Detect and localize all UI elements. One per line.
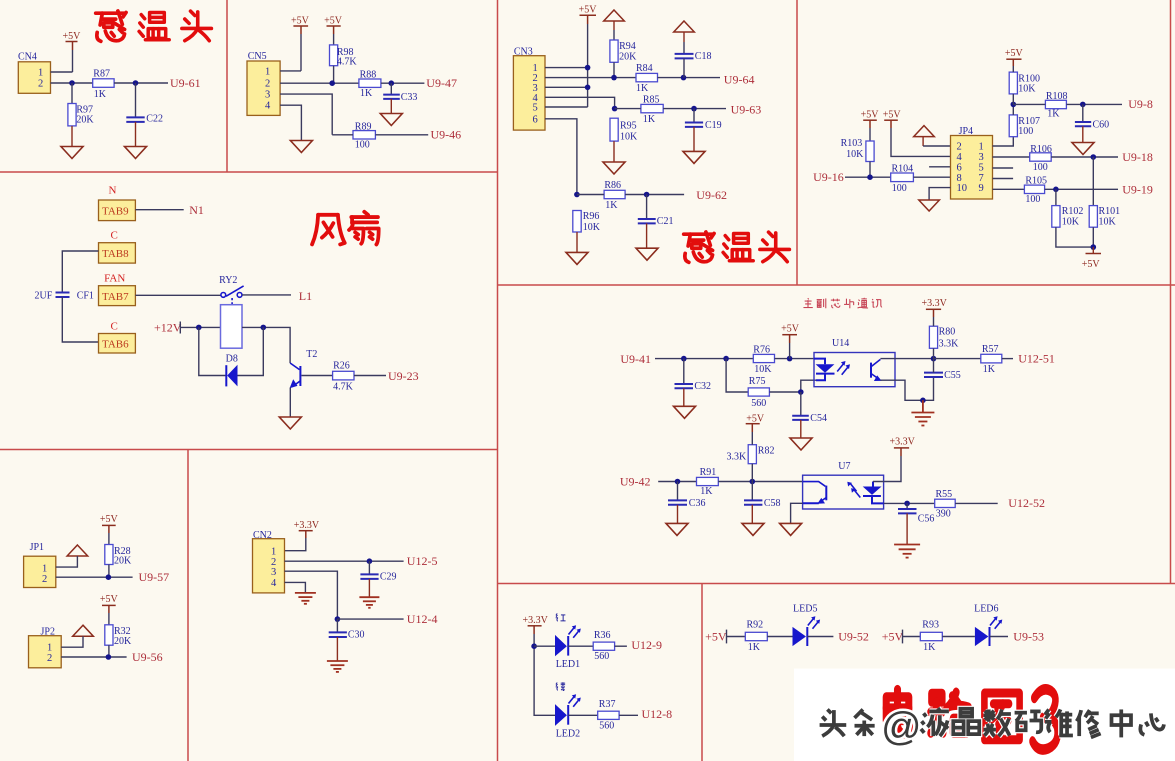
capacitor C19	[685, 109, 722, 132]
power arrow above R94	[604, 10, 625, 21]
node junction	[798, 389, 804, 395]
svg-text:C33: C33	[401, 92, 418, 103]
svg-text:9: 9	[979, 183, 984, 194]
wire C19 to ground	[693, 127, 695, 151]
node junction	[867, 174, 873, 180]
wire R84 to U9-64	[658, 77, 721, 79]
svg-text:D8: D8	[226, 353, 238, 364]
wire pin5	[545, 106, 588, 108]
resistor R95 10K	[610, 118, 638, 142]
ground	[636, 248, 658, 260]
resistor R107 100	[1009, 115, 1040, 137]
wire C56 to earth	[906, 513, 908, 544]
node junction	[69, 80, 75, 86]
resistor R98 4.7K	[330, 45, 358, 67]
svg-text:2: 2	[47, 653, 52, 664]
wire R82 to node	[751, 464, 753, 482]
svg-text:6: 6	[533, 114, 538, 125]
svg-text:5: 5	[979, 162, 984, 173]
wire +5V to pin1	[72, 50, 74, 72]
node junction	[196, 325, 202, 331]
svg-text:20K: 20K	[76, 115, 94, 126]
ground	[279, 417, 301, 429]
node junction	[1091, 244, 1097, 250]
svg-text:R84: R84	[636, 63, 653, 74]
wire pin4 to earth	[285, 582, 306, 593]
svg-text:1K: 1K	[983, 364, 996, 375]
svg-text:100: 100	[892, 183, 907, 194]
red title dianlutu3	[886, 689, 1057, 749]
wire R55 to U12-52	[955, 502, 998, 504]
wire pin2	[285, 560, 404, 562]
svg-text:4.7K: 4.7K	[333, 382, 354, 393]
node junction	[585, 65, 591, 71]
diode LED6	[974, 604, 1002, 646]
wire +5V rail	[587, 24, 589, 107]
svg-text:C18: C18	[695, 51, 712, 62]
svg-text:U9-23: U9-23	[388, 369, 419, 383]
border vertical x=188	[187, 450, 189, 761]
power +3.3V	[890, 436, 916, 456]
svg-text:100: 100	[1033, 162, 1048, 173]
resistor R26 4.7K	[333, 361, 354, 393]
wire R88 to U9-47	[381, 82, 425, 84]
wire +5V to R32	[108, 613, 110, 625]
svg-text:U9-46: U9-46	[431, 128, 462, 142]
svg-text:R57: R57	[982, 344, 999, 355]
node junction	[691, 106, 697, 112]
svg-text:R80: R80	[939, 326, 956, 337]
ground	[380, 114, 402, 126]
wire R108 to U9-8	[1066, 103, 1122, 105]
resistor R85 1K	[641, 94, 663, 125]
earth ground	[295, 593, 316, 604]
svg-text:R96: R96	[583, 211, 600, 222]
connector CN3	[513, 47, 545, 131]
wire C22 to ground	[135, 122, 137, 147]
gray watermark text	[820, 708, 1164, 737]
wire C54 to ground	[800, 420, 802, 438]
svg-text:R95: R95	[620, 120, 637, 131]
resistor R86 1K	[604, 180, 625, 211]
resistor R94 20K	[610, 40, 637, 63]
node junction	[611, 75, 617, 81]
wire pin10 to down arrow	[929, 188, 950, 200]
wire pin4	[545, 97, 615, 108]
svg-text:5: 5	[533, 103, 538, 114]
resistor R82 3.3K	[727, 445, 775, 464]
resistor R104 100	[891, 164, 914, 195]
wire R76 to U14	[775, 358, 815, 360]
svg-text:N1: N1	[189, 203, 204, 217]
svg-text:R37: R37	[599, 699, 616, 710]
svg-text:U9-63: U9-63	[731, 102, 762, 116]
svg-text:C30: C30	[348, 629, 365, 640]
power +5V right	[883, 110, 902, 128]
svg-text:R86: R86	[604, 180, 621, 191]
svg-text:+3.3V: +3.3V	[523, 615, 549, 626]
svg-text:10K: 10K	[1018, 83, 1036, 94]
wire node down to R101	[1092, 157, 1094, 206]
wire pin3	[280, 94, 332, 135]
wire +5V to R103	[869, 128, 871, 141]
capacitor C55	[924, 370, 961, 381]
wire pin3 to R89	[332, 134, 353, 136]
wire to R86	[577, 194, 604, 196]
svg-text:4.7K: 4.7K	[337, 56, 358, 67]
wire arrow to R94	[613, 21, 615, 30]
wire LED6 to U9-53	[990, 636, 1009, 638]
node junction	[389, 80, 395, 86]
power +5V	[100, 594, 119, 613]
power +5V top	[1005, 48, 1024, 66]
wire R105 to U9-19	[1045, 188, 1118, 190]
svg-text:390: 390	[936, 508, 951, 519]
svg-text:7: 7	[979, 173, 984, 184]
svg-text:C36: C36	[689, 498, 706, 509]
svg-text:+5V: +5V	[324, 16, 343, 27]
node junction	[106, 574, 112, 580]
svg-text:U12-4: U12-4	[407, 612, 438, 626]
wire +5V to pin1	[300, 34, 302, 71]
svg-text:2: 2	[957, 142, 962, 153]
node junction	[1091, 154, 1097, 160]
svg-text:+3.3V: +3.3V	[890, 436, 916, 447]
svg-text:1K: 1K	[1047, 108, 1060, 119]
svg-text:N: N	[109, 184, 117, 196]
svg-text:+5V: +5V	[861, 110, 880, 121]
wire node to R75	[726, 359, 748, 392]
wire R37 to U12-8	[619, 714, 638, 716]
resistor R92 1K	[745, 620, 767, 653]
wire coil to T2	[242, 327, 290, 363]
svg-text:U12-5: U12-5	[407, 554, 438, 568]
wire +5V to node	[789, 343, 791, 359]
power +3.3V	[922, 298, 948, 317]
svg-text:U14: U14	[832, 338, 849, 349]
node junction	[329, 80, 335, 86]
node junction	[904, 501, 910, 507]
wire to C22	[135, 83, 137, 117]
wire +3.3V to R80	[933, 317, 935, 326]
node junction	[585, 85, 591, 91]
border vertical x=497.5	[497, 0, 499, 761]
power +12V	[154, 320, 182, 334]
resistor R106 100	[1030, 144, 1052, 173]
wire +5V to R92	[727, 636, 746, 638]
capacitor C22	[126, 114, 163, 125]
wire TAB9 to N1	[135, 209, 183, 211]
svg-text:R91: R91	[700, 467, 717, 478]
wire R86 to U9-62	[625, 194, 684, 196]
svg-text:+5V: +5V	[781, 324, 800, 335]
wire R95 to ground	[613, 141, 615, 162]
ground	[125, 147, 147, 159]
wire R28 to pin2 net	[108, 565, 110, 578]
wire pin3	[285, 571, 338, 619]
svg-text:+5V: +5V	[100, 514, 119, 525]
svg-text:TAB9: TAB9	[102, 205, 129, 217]
wire C36 to ground	[677, 505, 679, 524]
diode D8	[199, 327, 263, 386]
svg-text:U9-42: U9-42	[620, 474, 651, 488]
wire pin1	[545, 67, 588, 69]
wire +5V to R98	[333, 34, 335, 45]
svg-text:CF1: CF1	[77, 291, 94, 302]
wire U9-42 to R91	[658, 481, 696, 483]
svg-text:U9-47: U9-47	[426, 76, 457, 90]
wire R87 to U9-61	[114, 82, 168, 84]
svg-text:2UF: 2UF	[35, 290, 53, 301]
connector JP2	[29, 627, 62, 668]
power +3.3V	[523, 615, 549, 634]
svg-text:U9-57: U9-57	[139, 570, 170, 584]
wire U14 emitter to ground node	[880, 377, 933, 400]
svg-text:+5V: +5V	[882, 630, 904, 644]
wire R104 to pin8	[913, 176, 950, 178]
wire pin2	[61, 656, 126, 658]
wire pin1	[993, 137, 1014, 146]
svg-text:C21: C21	[657, 216, 674, 227]
title comm zhufuxinpiantongxun	[803, 298, 882, 308]
svg-text:JP1: JP1	[30, 542, 44, 553]
wire U9-41 to R76	[655, 358, 753, 360]
svg-text:1K: 1K	[360, 88, 373, 99]
resistor R57 1K	[981, 344, 1002, 375]
svg-text:1: 1	[271, 546, 276, 557]
wire R75 to U14 LED cathode	[769, 380, 816, 392]
svg-text:+5V: +5V	[746, 413, 765, 424]
wire +5V to pin4	[891, 128, 951, 156]
connector CN4	[18, 52, 51, 94]
svg-text:C60: C60	[1093, 119, 1110, 130]
node junction	[106, 654, 112, 660]
svg-text:100: 100	[1025, 194, 1040, 205]
power +5V	[291, 16, 310, 35]
svg-text:1K: 1K	[700, 486, 713, 497]
wire arrow to pin2	[922, 137, 924, 146]
wire pin1	[51, 71, 73, 73]
wire R100 to node	[1012, 94, 1014, 105]
svg-text:C54: C54	[810, 413, 827, 424]
node junction	[681, 356, 687, 362]
svg-text:2: 2	[42, 574, 47, 585]
wire R94 to pin2	[613, 62, 615, 77]
wire R103 to U9-16 row	[869, 162, 871, 178]
border horizontal y=449.5	[0, 449, 498, 451]
wire node to R57	[934, 358, 981, 360]
svg-text:U9-61: U9-61	[170, 76, 201, 90]
wire R26 to U9-23	[354, 375, 386, 377]
power +5V	[781, 324, 800, 343]
node junction	[723, 356, 729, 362]
label hong red	[556, 613, 566, 621]
svg-text:560: 560	[599, 721, 614, 732]
wire +12V to coil	[180, 326, 220, 328]
wire C55 to node	[933, 359, 935, 373]
resistor R105 100	[1024, 176, 1047, 205]
power +5V	[579, 5, 598, 24]
resistor R87 1K	[93, 69, 114, 101]
wire CF1 to TAB6	[62, 297, 98, 342]
svg-text:L1: L1	[299, 289, 312, 303]
svg-text:3: 3	[979, 152, 984, 163]
wire R36 to U12-9	[615, 645, 627, 647]
wire pin2 to R97	[71, 83, 73, 104]
svg-text:R93: R93	[922, 620, 939, 631]
wire C21 to ground	[646, 223, 648, 248]
svg-text:4: 4	[957, 152, 963, 163]
wire pin1	[280, 70, 301, 72]
svg-text:U12-52: U12-52	[1008, 496, 1045, 510]
node junction	[675, 479, 681, 485]
connector JP4	[951, 126, 993, 199]
ground	[566, 252, 588, 264]
svg-text:C22: C22	[146, 114, 163, 125]
title fengshan	[312, 212, 379, 245]
resistor R84 1K	[636, 63, 658, 94]
ground	[780, 523, 802, 535]
svg-text:+5V: +5V	[579, 5, 598, 16]
capacitor C21	[638, 195, 674, 227]
svg-text:R103: R103	[841, 138, 863, 149]
svg-text:U9-19: U9-19	[1122, 182, 1153, 196]
capacitor C32	[675, 359, 712, 392]
svg-text:U12-8: U12-8	[642, 707, 673, 721]
svg-text:T2: T2	[306, 349, 317, 360]
svg-text:R55: R55	[936, 489, 953, 500]
svg-text:C32: C32	[694, 381, 711, 392]
ground	[683, 151, 705, 163]
capacitor C36	[668, 482, 705, 510]
relay contact RY2	[219, 275, 244, 305]
svg-text:R36: R36	[594, 630, 611, 641]
resistor R28 20K	[105, 545, 132, 567]
wire R57 to U12-51	[1002, 358, 1013, 360]
wire TAB7 to switch	[135, 294, 221, 296]
svg-text:U9-56: U9-56	[132, 650, 163, 664]
border vertical x=797	[796, 0, 798, 285]
svg-text:6: 6	[957, 162, 962, 173]
node junction	[133, 80, 139, 86]
power +5V left	[861, 110, 880, 128]
capacitor CF1 2UF	[35, 290, 94, 301]
svg-text:+5V: +5V	[63, 31, 82, 42]
wire pin3	[993, 156, 1030, 158]
svg-text:U9-64: U9-64	[724, 72, 755, 86]
wire +5V to R82	[751, 432, 753, 445]
svg-text:+5V: +5V	[1082, 259, 1101, 270]
svg-text:C56: C56	[918, 513, 935, 524]
resistor R97 20K	[68, 104, 95, 126]
wire LED2 to R37	[568, 714, 598, 716]
svg-text:4: 4	[265, 101, 271, 112]
svg-text:LED1: LED1	[556, 659, 580, 670]
svg-text:U9-8: U9-8	[1128, 97, 1153, 111]
wire R92 to LED5	[767, 636, 792, 638]
wire C33 to ground	[390, 99, 392, 114]
svg-text:+5V: +5V	[1005, 48, 1024, 59]
svg-text:TAB6: TAB6	[102, 338, 129, 350]
wire R98 to pin2 net	[333, 66, 335, 84]
svg-text:1K: 1K	[636, 83, 649, 94]
border horizontal y=172	[0, 171, 498, 173]
node junction	[335, 616, 341, 622]
svg-text:R87: R87	[93, 69, 110, 80]
node junction	[1011, 102, 1017, 108]
connector CN5	[247, 51, 280, 115]
wire pin2	[545, 77, 636, 79]
resistor R75 560	[748, 376, 769, 409]
ground	[61, 147, 83, 159]
resistor R103 10K	[841, 138, 875, 162]
svg-text:+12V: +12V	[154, 320, 182, 334]
gray watermark text halo	[820, 708, 1164, 737]
node junction	[920, 398, 926, 404]
svg-text:R82: R82	[758, 446, 775, 457]
wire +3.3V to pin1	[285, 538, 306, 551]
svg-text:U9-18: U9-18	[1122, 150, 1153, 164]
svg-text:U9-62: U9-62	[696, 188, 727, 202]
node junction	[931, 356, 937, 362]
svg-text:LED5: LED5	[793, 604, 817, 615]
svg-text:2: 2	[265, 79, 270, 90]
svg-text:1K: 1K	[94, 89, 107, 100]
border vertical right edge x=1170.5	[1170, 0, 1172, 584]
title ganwentou 2	[684, 232, 790, 262]
svg-text:10K: 10K	[1062, 217, 1080, 228]
svg-text:TAB7: TAB7	[102, 291, 129, 303]
wire U9-16	[845, 176, 891, 178]
svg-text:20K: 20K	[114, 556, 132, 567]
node junction	[1080, 102, 1086, 108]
diode LED2	[555, 694, 581, 739]
node junction	[787, 356, 793, 362]
wire to U12-4	[337, 618, 403, 620]
border horizontal y=583.5	[498, 583, 1175, 585]
svg-text:100: 100	[1018, 126, 1033, 137]
wire arrow to pin1	[61, 636, 83, 647]
op-coupler U14	[814, 338, 895, 387]
power +3.3V	[294, 520, 320, 538]
resistor R37 560	[598, 699, 619, 731]
svg-text:10K: 10K	[1099, 217, 1117, 228]
ground	[742, 523, 764, 535]
svg-text:3.3K: 3.3K	[939, 339, 960, 350]
svg-text:1K: 1K	[605, 200, 618, 211]
resistor R32 20K	[105, 625, 132, 647]
capacitor C29	[360, 561, 396, 582]
svg-text:4: 4	[271, 578, 277, 589]
power +5V	[746, 413, 765, 432]
svg-text:560: 560	[751, 398, 766, 409]
svg-text:2: 2	[38, 78, 43, 89]
wire R91 to U7	[718, 481, 803, 483]
tab TAB8	[99, 243, 136, 263]
wire C29 to earth	[368, 579, 370, 597]
wire LED5 to U9-52	[807, 636, 833, 638]
resistor R76 10K	[753, 345, 774, 375]
ground arrow	[919, 200, 940, 211]
node junction	[574, 192, 580, 198]
wire TAB8 to CF1	[62, 251, 98, 293]
power +5V bottom	[1082, 247, 1101, 270]
earth ground	[359, 597, 379, 608]
resistor R36 560	[593, 630, 614, 662]
capacitor C54	[792, 392, 827, 424]
svg-text:1K: 1K	[643, 114, 656, 125]
ground	[1072, 143, 1094, 155]
